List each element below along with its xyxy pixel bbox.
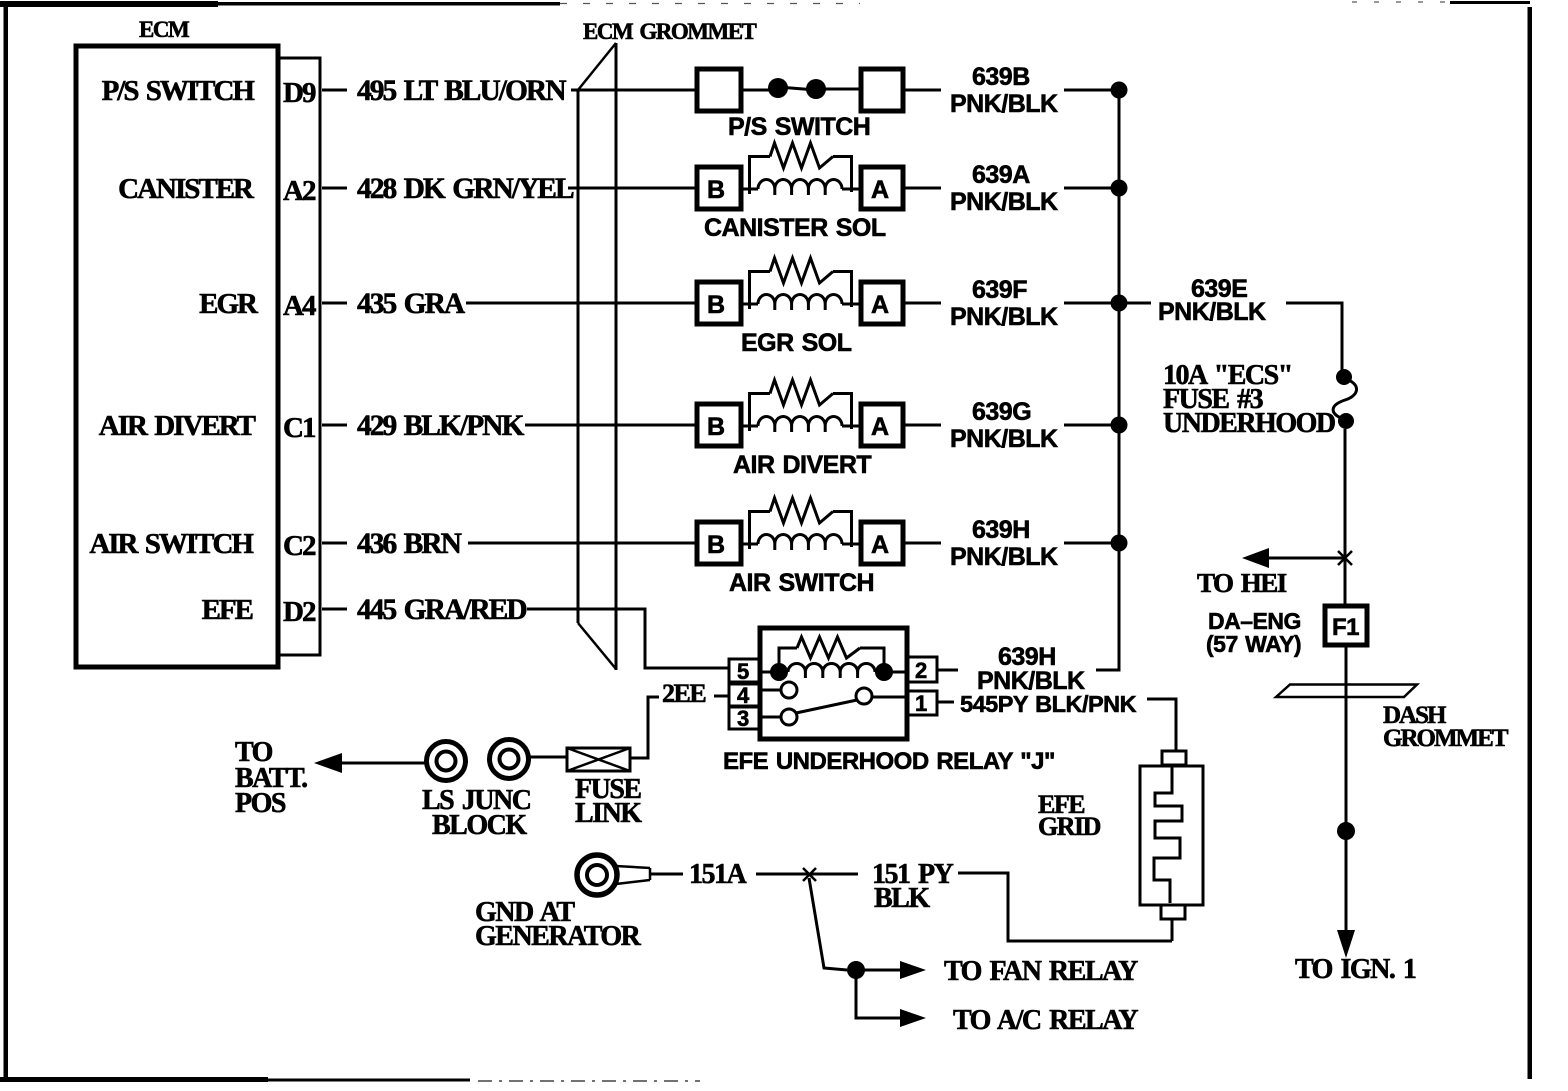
svg-text:545PY BLK/PNK: 545PY BLK/PNK <box>960 691 1137 717</box>
svg-text:BLOCK: BLOCK <box>432 810 527 841</box>
svg-text:B: B <box>707 413 725 441</box>
junction dot fan relay <box>847 961 865 979</box>
svg-text:LINK: LINK <box>575 798 642 829</box>
fuse F3 squiggle <box>1333 378 1356 420</box>
wire 639E from bus <box>1127 302 1151 305</box>
svg-text:A2: A2 <box>283 175 316 207</box>
fuse link symbol <box>567 748 630 771</box>
svg-text:PNK/BLK: PNK/BLK <box>950 188 1058 216</box>
svg-text:B: B <box>707 176 725 204</box>
wire coil to A <box>842 303 861 306</box>
svg-text:2: 2 <box>915 658 927 683</box>
svg-text:AIR DIVERT: AIR DIVERT <box>733 451 871 479</box>
svg-text:ECM GROMMET: ECM GROMMET <box>583 19 757 44</box>
wire coil to A <box>842 425 861 428</box>
svg-text:435 GRA: 435 GRA <box>357 288 466 320</box>
svg-text:A: A <box>871 413 889 441</box>
TO FAN RELAY arrow <box>856 969 903 972</box>
svg-text:151A: 151A <box>689 859 748 890</box>
terminal box A of AIR SWITCH <box>861 522 903 564</box>
terminal box A of CANISTER SOL <box>861 167 903 209</box>
page border left <box>4 1 9 1081</box>
solenoid AIR DIVERT coil <box>758 417 842 427</box>
relay coil <box>788 664 875 673</box>
relay coil dot right <box>875 663 893 681</box>
P/S switch contact wire left <box>741 89 770 92</box>
svg-text:495 LT BLU/ORN: 495 LT BLU/ORN <box>357 75 566 107</box>
svg-text:A4: A4 <box>283 290 316 322</box>
wire 639H to bus <box>1064 542 1119 545</box>
wire fuse to F1 <box>1344 429 1347 606</box>
EFE grid top tab <box>1162 751 1186 765</box>
solenoid CANISTER SOL resistor (parallel) <box>750 157 771 195</box>
P/S switch contact dot right <box>806 79 826 99</box>
wire 545PY to EFE grid <box>1147 699 1176 751</box>
fuse F3 symbol top dot <box>1336 369 1352 385</box>
svg-text:B: B <box>707 291 725 319</box>
svg-text:3: 3 <box>737 706 749 731</box>
relay coil wire left <box>760 671 779 674</box>
svg-text:GROMMET: GROMMET <box>1383 725 1509 752</box>
svg-text:5: 5 <box>737 659 749 684</box>
solenoid AIR DIVERT resistor (parallel) <box>750 394 771 432</box>
svg-text:ECM: ECM <box>139 17 190 42</box>
svg-text:UNDERHOOD: UNDERHOOD <box>1163 408 1335 439</box>
EFE grid body <box>1140 766 1203 905</box>
svg-text:428 DK GRN/YEL: 428 DK GRN/YEL <box>357 173 574 205</box>
junction dot row 4 <box>1111 417 1128 434</box>
ECM grommet right line <box>615 43 618 670</box>
svg-text:PNK/BLK: PNK/BLK <box>950 90 1058 118</box>
svg-text:TO HEI: TO HEI <box>1197 568 1287 598</box>
svg-text:EGR SOL: EGR SOL <box>741 329 852 357</box>
vertical bus 639 PNK/BLK <box>1096 90 1119 670</box>
P/S switch left terminal box <box>697 69 741 111</box>
relay contact pin3 <box>760 716 781 719</box>
svg-text:GENERATOR: GENERATOR <box>475 921 642 952</box>
svg-text:PNK/BLK: PNK/BLK <box>950 425 1058 453</box>
wire EFE grid bottom <box>1171 919 1174 941</box>
wire from terminal A row 5 <box>903 542 941 545</box>
wire 435 GRA run <box>466 302 697 305</box>
terminal box B of AIR SWITCH <box>697 522 741 564</box>
svg-text:639B: 639B <box>972 63 1030 91</box>
svg-text:AIR SWITCH: AIR SWITCH <box>89 528 254 560</box>
terminal box A of AIR DIVERT <box>861 404 903 446</box>
P/S switch right terminal box <box>861 69 903 111</box>
terminal box B of CANISTER SOL <box>697 167 741 209</box>
svg-text:AIR DIVERT: AIR DIVERT <box>99 410 256 442</box>
svg-text:GRID: GRID <box>1038 812 1101 841</box>
wire 151A to splice <box>756 873 858 876</box>
junction dot row 3 <box>1111 295 1128 312</box>
svg-text:A: A <box>871 531 889 559</box>
terminal box B of AIR DIVERT <box>697 404 741 446</box>
relay pin 2 <box>907 657 937 682</box>
fuse F3 symbol bottom dot <box>1338 413 1354 429</box>
svg-text:2EE: 2EE <box>662 679 706 708</box>
relay contact pin4 <box>760 689 781 692</box>
wire ground to 151A <box>651 873 683 876</box>
svg-text:TO A/C RELAY: TO A/C RELAY <box>953 1005 1138 1036</box>
page border bottom <box>0 1077 268 1082</box>
ECM grommet bottom diagonal <box>578 623 616 669</box>
wire 639E to fuse <box>1286 303 1342 372</box>
svg-text:639H: 639H <box>972 516 1030 544</box>
wire junc block to fuse link <box>530 756 567 759</box>
EFE grid bottom tab <box>1161 905 1185 919</box>
relay armature <box>796 700 857 713</box>
svg-text:PNK/BLK: PNK/BLK <box>950 543 1058 571</box>
relay pin 4 <box>729 684 760 706</box>
page border right <box>1528 7 1533 1079</box>
wire 639G to bus <box>1064 424 1119 427</box>
wire 436 BRN run <box>468 542 697 545</box>
svg-text:A: A <box>871 176 889 204</box>
wire B to coil <box>741 188 758 191</box>
relay coil dot left <box>770 663 788 681</box>
wire 495 LT BLU/ORN run <box>571 89 695 92</box>
svg-text:CANISTER: CANISTER <box>118 173 255 205</box>
splice x mark <box>1338 551 1352 565</box>
wire 445 GRA/RED run to EFE relay pin 5 <box>527 609 729 668</box>
wire from terminal A row 1 <box>903 89 941 92</box>
EFE grid element meander <box>1154 767 1182 903</box>
wire relay pin1 stub <box>937 701 954 704</box>
junction dot row 1 <box>1111 82 1128 99</box>
wire 639F to bus <box>1064 302 1119 305</box>
relay contact pin1 movable <box>872 696 907 699</box>
svg-text:CANISTER SOL: CANISTER SOL <box>704 214 886 242</box>
LS junction block terminal 2 <box>490 740 529 779</box>
relay pin 5 <box>729 659 760 682</box>
svg-text:D2: D2 <box>283 596 316 628</box>
svg-text:436 BRN: 436 BRN <box>357 528 462 560</box>
wire B to coil <box>741 303 758 306</box>
pin A2 tick <box>322 187 347 190</box>
wire coil to A <box>842 188 861 191</box>
wire 151 PY to EFE grid <box>958 873 1172 941</box>
terminal box B of EGR SOL <box>697 282 741 324</box>
svg-text:BLK: BLK <box>874 883 930 914</box>
svg-text:1: 1 <box>915 691 927 716</box>
svg-text:445 GRA/RED: 445 GRA/RED <box>357 594 526 626</box>
pin A4 tick <box>322 302 347 305</box>
svg-text:D9: D9 <box>283 77 316 109</box>
svg-text:A: A <box>871 291 889 319</box>
svg-text:639F: 639F <box>972 276 1027 304</box>
splice x mark 151 <box>803 868 816 881</box>
svg-text:EGR: EGR <box>199 288 259 320</box>
wire from terminal A row 2 <box>903 187 941 190</box>
pin C2 tick <box>322 542 347 545</box>
wire 428 DK GRN/YEL run <box>568 187 697 190</box>
page border top <box>0 1 218 7</box>
relay J body <box>760 628 907 739</box>
DASH GROMMET symbol <box>1276 685 1417 698</box>
wire 639B to bus <box>1064 89 1119 92</box>
wire B to coil <box>741 425 758 428</box>
junction dot row 5 <box>1111 535 1128 552</box>
svg-text:TO IGN. 1: TO IGN. 1 <box>1295 954 1416 985</box>
wire to LS junc block <box>340 762 425 765</box>
svg-text:C1: C1 <box>283 412 315 444</box>
ECM connector pin strip <box>279 58 320 655</box>
solenoid EGR SOL resistor (parallel) <box>750 272 771 310</box>
svg-text:AIR SWITCH: AIR SWITCH <box>729 569 874 597</box>
TO HEI arrow <box>1260 557 1345 560</box>
svg-text:EFE UNDERHOOD RELAY "J": EFE UNDERHOOD RELAY "J" <box>723 748 1055 775</box>
pin D2 tick <box>322 608 347 611</box>
junction dot row 2 <box>1111 180 1128 197</box>
relay pin 3 <box>729 707 760 729</box>
terminal box A of EGR SOL <box>861 282 903 324</box>
svg-text:639G: 639G <box>972 398 1031 426</box>
svg-text:429 BLK/PNK: 429 BLK/PNK <box>357 410 524 442</box>
relay parallel resistor <box>779 648 797 665</box>
wire coil to A <box>842 543 861 546</box>
junction dot ign wire <box>1337 822 1355 840</box>
wire relay pin2 stub <box>937 669 958 672</box>
pin D9 tick <box>322 89 347 92</box>
wire 2EE stub to pin 4 <box>714 695 729 698</box>
wire F1 down to IGN <box>1345 645 1348 934</box>
svg-text:C2: C2 <box>283 530 316 562</box>
P/S switch contact dot left <box>768 78 788 98</box>
wire from terminal A row 4 <box>903 424 941 427</box>
svg-text:P/S SWITCH: P/S SWITCH <box>102 75 256 107</box>
svg-text:B: B <box>707 531 725 559</box>
ECM grommet left line <box>577 90 580 623</box>
wire 429 BLK/PNK run <box>525 424 697 427</box>
P/S switch contact blade <box>778 87 816 90</box>
pin C1 tick <box>322 424 347 427</box>
svg-text:639A: 639A <box>972 161 1030 189</box>
ECM box U1 <box>76 46 278 667</box>
wire 2EE from fuse link <box>630 697 659 758</box>
P/S switch contact wire right <box>824 88 861 91</box>
solenoid CANISTER SOL coil <box>758 180 842 190</box>
connector F1 box <box>1325 606 1367 645</box>
solenoid AIR SWITCH resistor (parallel) <box>750 512 771 550</box>
svg-text:PNK/BLK: PNK/BLK <box>950 303 1058 331</box>
svg-text:(57 WAY): (57 WAY) <box>1206 631 1301 657</box>
relay coil wire right <box>884 671 907 674</box>
wire splice to fan/ac relays <box>809 878 847 970</box>
svg-text:EFE: EFE <box>202 594 253 626</box>
wire B to coil <box>741 543 758 546</box>
svg-text:4: 4 <box>737 683 750 708</box>
solenoid AIR SWITCH coil <box>758 535 842 545</box>
TO BATT arrowhead <box>314 753 342 773</box>
svg-text:POS: POS <box>235 788 286 819</box>
LS junction block terminal 1 <box>427 742 466 781</box>
TO A/C RELAY arrowhead <box>900 1009 926 1027</box>
svg-text:PNK/BLK: PNK/BLK <box>1158 298 1266 326</box>
ECM grommet top diagonal <box>578 43 616 90</box>
TO IGN arrowhead <box>1337 930 1355 958</box>
svg-text:TO FAN RELAY: TO FAN RELAY <box>944 956 1138 987</box>
wire to AC relay <box>856 970 903 1018</box>
svg-text:F1: F1 <box>1332 614 1359 641</box>
ground ring terminal at generator <box>577 855 617 895</box>
relay pin 1 <box>907 691 937 715</box>
wire 639A to bus <box>1064 187 1119 190</box>
wire from terminal A row 3 <box>903 302 941 305</box>
svg-text:P/S SWITCH: P/S SWITCH <box>728 113 870 141</box>
solenoid EGR SOL coil <box>758 295 842 305</box>
